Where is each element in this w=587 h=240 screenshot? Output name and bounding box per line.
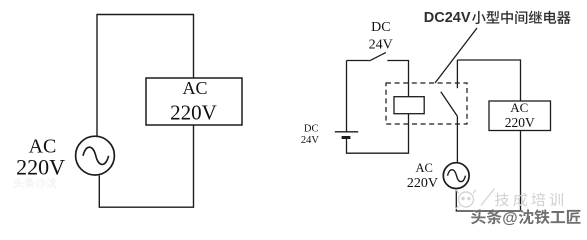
switch S1 right wire to coil (387, 61, 408, 97)
switch S1 left wire (347, 60, 370, 62)
watermark: 技成培训 (light) (495, 193, 563, 207)
AC source G2 (right circuit) (443, 163, 469, 189)
svg-text:220V: 220V (16, 155, 65, 180)
switch S1 blade (369, 52, 386, 61)
load box AC 220V (left circuit) (146, 78, 242, 125)
svg-text:@: @ (502, 210, 517, 227)
watermark: faint remnant bottom-left (13, 178, 56, 190)
svg-text:24V: 24V (301, 135, 320, 146)
watermark: 头条@沈铁工匠 (gray) (471, 209, 580, 226)
relay contact KA-1 blade (441, 92, 458, 117)
svg-text:24V: 24V (369, 38, 393, 53)
svg-text:AC: AC (510, 100, 528, 115)
svg-text:DC24V: DC24V (424, 10, 471, 26)
battery B1 short plate (-) (342, 136, 351, 139)
annotation pointer line to relay (435, 28, 477, 83)
svg-text:220V: 220V (505, 115, 535, 130)
svg-text:AC: AC (416, 161, 433, 175)
wire: battery branch down (346, 61, 348, 132)
wire: left circuit top run (source top to load box) (97, 15, 194, 136)
svg-text:@: @ (35, 178, 46, 190)
relay outline (dashed) (386, 83, 467, 124)
wire: bottom of AC loop (456, 131, 520, 212)
wire: contact to AC source G2 (456, 116, 458, 162)
relay coil KA (394, 97, 424, 114)
load box AC 220V (right circuit) (489, 101, 551, 131)
title: DC24V small intermediate relay (424, 10, 571, 26)
wire: left circuit bottom run (load box to source bottom) (99, 125, 193, 207)
svg-text:AC: AC (182, 78, 207, 98)
svg-text:220V: 220V (170, 101, 217, 125)
svg-text:DC: DC (304, 124, 319, 135)
svg-text:DC: DC (371, 20, 390, 35)
wire: bottom of DC loop (347, 114, 409, 154)
wire: top of AC loop (457, 60, 520, 101)
AC source G1 (left circuit) (76, 136, 115, 175)
battery B1 long plate (+) (335, 131, 358, 133)
watermark: faint logo paw (456, 189, 495, 210)
svg-text:220V: 220V (407, 176, 438, 191)
wire: contact top feed (456, 60, 458, 88)
